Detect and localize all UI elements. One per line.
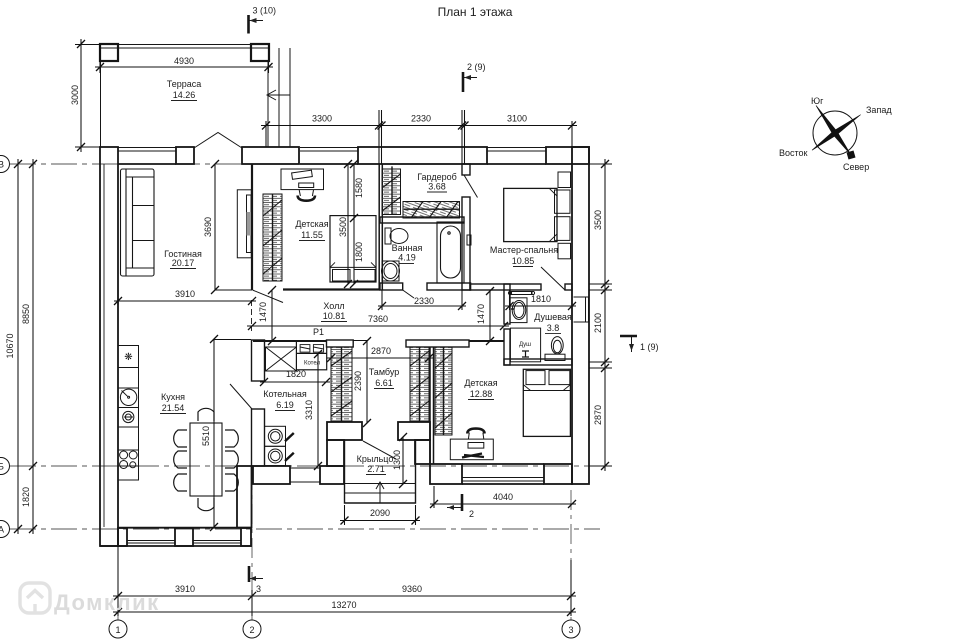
svg-text:3500: 3500 xyxy=(593,210,603,230)
wall top long segment xyxy=(358,147,487,164)
svg-text:Детская: Детская xyxy=(464,378,497,388)
мастер TV xyxy=(467,235,471,245)
svg-text:6.19: 6.19 xyxy=(276,400,294,410)
котельная left wall xyxy=(252,340,265,466)
svg-text:❋: ❋ xyxy=(124,352,132,363)
svg-text:Душевая: Душевая xyxy=(534,312,572,322)
sofa гостиная xyxy=(121,169,155,276)
TV console on wall xyxy=(237,190,251,258)
wall connector left porch xyxy=(327,440,344,466)
svg-text:13270: 13270 xyxy=(331,600,356,610)
wall гардероб/ванная horizontal xyxy=(380,217,464,223)
svg-text:5510: 5510 xyxy=(201,426,211,446)
ванная toilet xyxy=(385,228,408,244)
svg-text:Терраса: Терраса xyxy=(167,79,202,89)
тамбур bottom wall xyxy=(327,422,430,440)
svg-text:2330: 2330 xyxy=(414,296,434,306)
section marker 3 (10) top xyxy=(249,6,277,34)
axis line Б horizontal dash-dot xyxy=(10,465,592,467)
svg-text:8850: 8850 xyxy=(21,304,31,324)
мастер bed xyxy=(504,188,570,241)
axis circle 3 xyxy=(562,620,580,638)
door leaf гардероб xyxy=(464,175,478,198)
svg-text:3.8: 3.8 xyxy=(547,323,560,333)
top wall solid segments xyxy=(176,147,589,164)
axis line 2 vertical dash-dot xyxy=(251,470,253,620)
svg-text:2 (9): 2 (9) xyxy=(467,62,486,72)
axis circle В xyxy=(0,156,10,173)
svg-text:1: 1 xyxy=(115,625,120,635)
dim 2390 тамбур vertical xyxy=(353,337,371,427)
душевая towel rail xyxy=(508,291,534,294)
svg-text:3300: 3300 xyxy=(312,114,332,124)
svg-text:3910: 3910 xyxy=(175,584,195,594)
dim 1470 холл left xyxy=(258,286,276,345)
svg-text:1820: 1820 xyxy=(21,487,31,507)
svg-text:Север: Север xyxy=(843,162,869,172)
svg-text:Запад: Запад xyxy=(866,105,892,115)
svg-text:1580: 1580 xyxy=(354,178,364,198)
svg-text:9360: 9360 xyxy=(402,584,422,594)
dim 1820 котельная xyxy=(260,369,330,386)
svg-text:2870: 2870 xyxy=(371,346,391,356)
svg-text:4.19: 4.19 xyxy=(398,253,416,263)
svg-text:4930: 4930 xyxy=(174,56,194,66)
svg-text:Котельная: Котельная xyxy=(263,389,307,399)
svg-text:Гардероб: Гардероб xyxy=(417,172,457,182)
wall top right segment xyxy=(546,147,589,164)
door leaf мастер xyxy=(541,267,565,290)
душевая shower box xyxy=(510,328,540,362)
svg-text:Кухня: Кухня xyxy=(161,392,185,402)
compass needle юг-север xyxy=(816,106,851,156)
dim 2090 крыльцо xyxy=(340,505,420,525)
entrance door leaf xyxy=(363,441,396,459)
svg-text:6.61: 6.61 xyxy=(375,378,393,388)
svg-text:1810: 1810 xyxy=(531,294,551,304)
svg-text:1 (9): 1 (9) xyxy=(640,342,659,352)
wall детская1/гардероб vertical xyxy=(379,164,382,290)
svg-text:14.26: 14.26 xyxy=(173,90,196,100)
svg-text:1470: 1470 xyxy=(476,304,486,324)
step wall vertical x237-251.5 xyxy=(237,466,252,528)
bottom chain 3910 9360 / 13270 xyxy=(113,546,576,616)
dim 2870 тамбур xyxy=(327,346,433,362)
window terrace-living x118-176 xyxy=(118,148,176,165)
котельная X-box xyxy=(266,347,297,371)
terrace left edge xyxy=(100,61,102,147)
top chain 3300 2330 3100 xyxy=(261,110,577,164)
section marker 2 (9) top xyxy=(463,62,486,92)
svg-text:Домклик: Домклик xyxy=(54,590,160,615)
window right wall душевая xyxy=(574,297,590,322)
wardrobe детская1 hatched xyxy=(263,194,282,281)
bed детская1 xyxy=(330,216,376,282)
right chain 3500 2100 2870 xyxy=(589,159,612,471)
svg-text:Детская: Детская xyxy=(295,219,328,229)
dim 3000 terrace vertical xyxy=(70,39,100,152)
compass north arrow xyxy=(847,151,856,160)
svg-text:Холл: Холл xyxy=(323,301,344,311)
terrace entrance arrow xyxy=(267,90,290,100)
window детская-1 x300-358 xyxy=(300,148,358,165)
svg-text:4040: 4040 xyxy=(493,492,513,502)
window kitchen bottom x127-175 xyxy=(127,541,175,544)
washing machines xyxy=(265,426,294,465)
closet cap right xyxy=(406,340,469,347)
детская-12.88 bed xyxy=(523,369,570,436)
гардероб closet vertical xyxy=(382,166,401,215)
svg-text:3000: 3000 xyxy=(70,85,80,105)
svg-text:В: В xyxy=(0,160,4,170)
axis circle 2 xyxy=(243,620,261,638)
wall холл/котельная y340-346 xyxy=(253,340,504,342)
bottom wall kitchen xyxy=(100,528,252,546)
svg-text:10670: 10670 xyxy=(5,333,15,358)
right outer wall xyxy=(572,147,589,484)
svg-text:2390: 2390 xyxy=(353,371,363,391)
гардероб closet horizontal xyxy=(403,202,460,219)
wall top segment terrace junction xyxy=(242,147,299,164)
svg-text:10.81: 10.81 xyxy=(323,311,346,321)
dim 3690 гостиная vertical xyxy=(203,160,252,294)
детская-12.88 desk xyxy=(450,429,493,460)
wall top post left of door xyxy=(176,147,194,164)
wall тамбур/детская vertical x429-435 xyxy=(430,341,434,464)
leader 2330 ванная xyxy=(403,290,414,298)
axis line 1 vertical dash-dot xyxy=(117,546,119,620)
svg-text:1820: 1820 xyxy=(286,369,306,379)
svg-text:1300: 1300 xyxy=(392,450,402,470)
svg-text:2100: 2100 xyxy=(593,313,603,333)
svg-text:Б: Б xyxy=(0,462,4,472)
svg-text:3910: 3910 xyxy=(175,289,195,299)
dim 2330 ванная xyxy=(378,290,466,310)
мастер nightstand top xyxy=(558,172,571,188)
dining table xyxy=(190,423,222,496)
котёл unit xyxy=(296,341,326,370)
svg-text:3: 3 xyxy=(256,584,261,594)
svg-text:3.68: 3.68 xyxy=(428,182,446,192)
детская closet xyxy=(435,347,452,435)
svg-text:2870: 2870 xyxy=(593,405,603,425)
svg-text:Мастер-спальня: Мастер-спальня xyxy=(490,245,558,255)
котельная bottom wall xyxy=(253,466,344,484)
svg-text:21.54: 21.54 xyxy=(162,403,185,413)
axis circle Б xyxy=(0,458,10,475)
porch up arrow xyxy=(376,482,384,503)
ванная tub xyxy=(437,222,464,283)
dim chain 1580 1800 / 3500 детская1 xyxy=(338,160,364,288)
svg-text:А: А xyxy=(0,525,4,535)
porch крыльцо outline xyxy=(345,440,416,503)
dim 4930 terrace xyxy=(95,44,273,73)
door to terrace with peak symbol xyxy=(194,133,242,149)
svg-text:11.55: 11.55 xyxy=(301,230,323,240)
terrace right wall band xyxy=(268,48,290,147)
svg-text:3100: 3100 xyxy=(507,114,527,124)
душевая sink xyxy=(510,298,527,323)
svg-text:3310: 3310 xyxy=(304,400,314,420)
terrace post top-left xyxy=(100,44,118,61)
closet cap left xyxy=(327,340,354,347)
door leaf котельная xyxy=(230,384,252,409)
svg-text:10.85: 10.85 xyxy=(512,256,535,266)
svg-text:1800: 1800 xyxy=(354,242,364,262)
svg-text:12.88: 12.88 xyxy=(470,389,493,399)
window kitchen bottom x193-241 xyxy=(193,541,241,544)
svg-text:3: 3 xyxy=(568,625,573,635)
axis line В horizontal dash-dot xyxy=(10,163,612,165)
dim 3910 гостиная xyxy=(114,289,256,305)
svg-text:20.17: 20.17 xyxy=(172,258,195,268)
door leaf детская1 xyxy=(253,290,284,303)
dim 1470 холл right xyxy=(476,287,494,345)
svg-text:2: 2 xyxy=(469,509,474,519)
wall гардероб/мастер vertical xyxy=(462,164,470,290)
тамбур closet right xyxy=(410,347,429,421)
section marker 1 (9) right xyxy=(620,336,659,352)
left outer wall xyxy=(100,147,118,546)
svg-text:Душ: Душ xyxy=(519,342,531,348)
axis circle А xyxy=(0,521,10,538)
window master x487-546 xyxy=(487,148,546,165)
axis circle 1 xyxy=(109,620,127,638)
svg-text:2: 2 xyxy=(249,625,254,635)
section marker 3 bottom xyxy=(249,566,263,594)
section marker 2 bottom xyxy=(447,494,474,519)
душевая bottom wall xyxy=(504,359,572,365)
desk детская1 xyxy=(281,169,324,201)
wall гостиная/детская1 vertical xyxy=(251,164,253,290)
svg-text:2.71: 2.71 xyxy=(367,464,385,474)
ванная sink xyxy=(382,261,400,281)
детская-12.88 bottom wall xyxy=(430,464,572,484)
compass needle восток-запад xyxy=(812,115,861,151)
axis line 3 vertical dash-dot xyxy=(570,490,572,620)
terrace top wall thin xyxy=(100,45,269,49)
svg-text:7360: 7360 xyxy=(368,314,388,324)
left chain 8850 1820 / 10670 xyxy=(5,159,100,534)
dim 7360 холл xyxy=(247,314,509,330)
dim 5510 кухня vertical xyxy=(201,335,251,531)
svg-text:Крыльцо: Крыльцо xyxy=(357,454,394,464)
svg-text:1470: 1470 xyxy=(258,302,268,322)
svg-text:2090: 2090 xyxy=(370,508,390,518)
тамбур closet left xyxy=(331,347,352,421)
svg-text:Тамбур: Тамбур xyxy=(369,367,400,377)
wall connector right porch xyxy=(415,440,430,464)
svg-text:Ванная: Ванная xyxy=(392,243,423,253)
svg-text:3690: 3690 xyxy=(203,217,213,237)
chairs xyxy=(174,408,239,510)
dim 4040 детская-12.88 xyxy=(430,486,576,508)
svg-text:3500: 3500 xyxy=(338,217,348,237)
svg-text:Восток: Восток xyxy=(779,148,808,158)
dim 1300 крыльцо vertical xyxy=(392,433,407,488)
wall мастер south y284-290 xyxy=(470,284,572,290)
svg-text:План 1 этажа: План 1 этажа xyxy=(438,5,513,19)
dim 3310 котельная vertical xyxy=(304,350,322,470)
axis line А horizontal dash-dot xyxy=(10,528,600,530)
terrace post top-right xyxy=(251,44,269,61)
svg-text:Р1: Р1 xyxy=(313,327,324,337)
wall холл top horizontal y284-290 xyxy=(283,288,380,290)
wall ванная bottom segments xyxy=(380,283,471,290)
мастер nightstand bottom xyxy=(558,243,571,258)
svg-text:Юг: Юг xyxy=(811,96,824,106)
window детская-12.88 bottom xyxy=(462,478,544,482)
зона divider dashed кухня/холл xyxy=(251,300,253,331)
душевая toilet xyxy=(545,337,565,361)
котельная exterior door threshold xyxy=(290,468,320,482)
svg-text:2330: 2330 xyxy=(411,114,431,124)
душевая left wall xyxy=(504,284,510,365)
kitchen counter xyxy=(118,346,139,481)
porch steps xyxy=(345,484,416,494)
dim 1810 душевая xyxy=(505,290,576,310)
svg-text:3 (10): 3 (10) xyxy=(253,6,277,16)
